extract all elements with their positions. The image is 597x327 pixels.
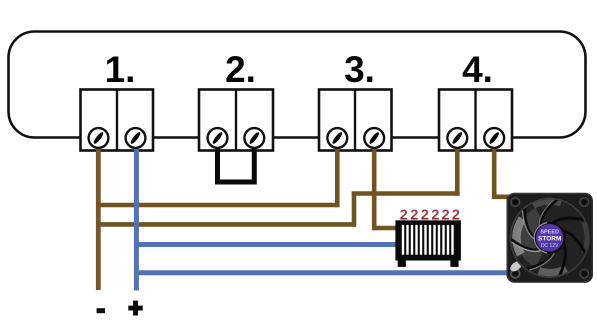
wire brown horizontal (y193.5) riser to terminal 4L [352,191,460,196]
svg-text:1.: 1. [105,49,136,90]
wire brown vertical from terminal 4R to fan [492,140,497,199]
blade separations [552,218,585,224]
blade edge glints [529,251,555,270]
wire brown riser x354 [352,192,357,227]
screw terminal 4L [447,128,467,148]
fan [507,193,594,283]
wire brown vertical from terminal 3R to heater [372,140,377,230]
screw terminal 3R [364,128,384,148]
screw terminal 1R [126,128,146,148]
screw terminal 2L [208,128,228,148]
svg-text:2: 2 [442,208,450,224]
wire brown horizontal (y224) from terminal 1 wire to riser [96,222,356,227]
label plus [128,301,142,316]
screw terminal 1L [89,128,109,148]
blade disc [511,199,589,277]
wire brown vertical from terminal 1L to minus [96,140,101,290]
heat marks above heater [400,208,460,224]
hub with label [534,222,566,254]
wire brown vertical from terminal 3L [335,140,340,207]
blade highlights (bright streaks) [517,208,543,268]
svg-text:DC 12V: DC 12V [541,243,559,249]
controller outline [9,32,586,138]
wire blue horizontal (y272.7) to fan [134,270,509,275]
wire brown vertical from terminal 4L [455,140,460,196]
fan opening [509,198,590,279]
label minus [97,308,105,313]
rim ring [510,199,589,278]
svg-text:STORM: STORM [538,235,561,242]
svg-text:2: 2 [421,208,429,224]
svg-text:2: 2 [431,208,439,224]
screw terminal 4R [484,128,504,148]
terminal block 2 [199,90,273,151]
terminal block 1 [81,90,154,151]
svg-text:4.: 4. [462,49,493,90]
screw terminal 2R [244,128,264,148]
corner screw holes [511,198,520,207]
jumper wire on terminal 2 [218,140,255,182]
wire blue horizontal (y244.5) to heater [134,242,396,247]
wire brown horizontal into heater [372,226,398,231]
glint bottom-left of frame [508,259,523,273]
wire brown horizontal into fan [492,195,510,200]
wire blue vertical from terminal 1R to plus [134,140,139,291]
heater (radiator) [395,208,461,267]
screw terminal 3L [327,128,347,148]
svg-text:3.: 3. [344,49,375,90]
terminal block 4 [439,90,512,151]
svg-text:2: 2 [410,208,418,224]
wire brown horizontal node A (y205) terminal 1L to terminal 3L [96,203,338,208]
svg-text:2.: 2. [225,49,256,90]
svg-text:2: 2 [400,208,408,224]
svg-text:2: 2 [452,208,460,224]
terminal block 3 [319,90,392,151]
